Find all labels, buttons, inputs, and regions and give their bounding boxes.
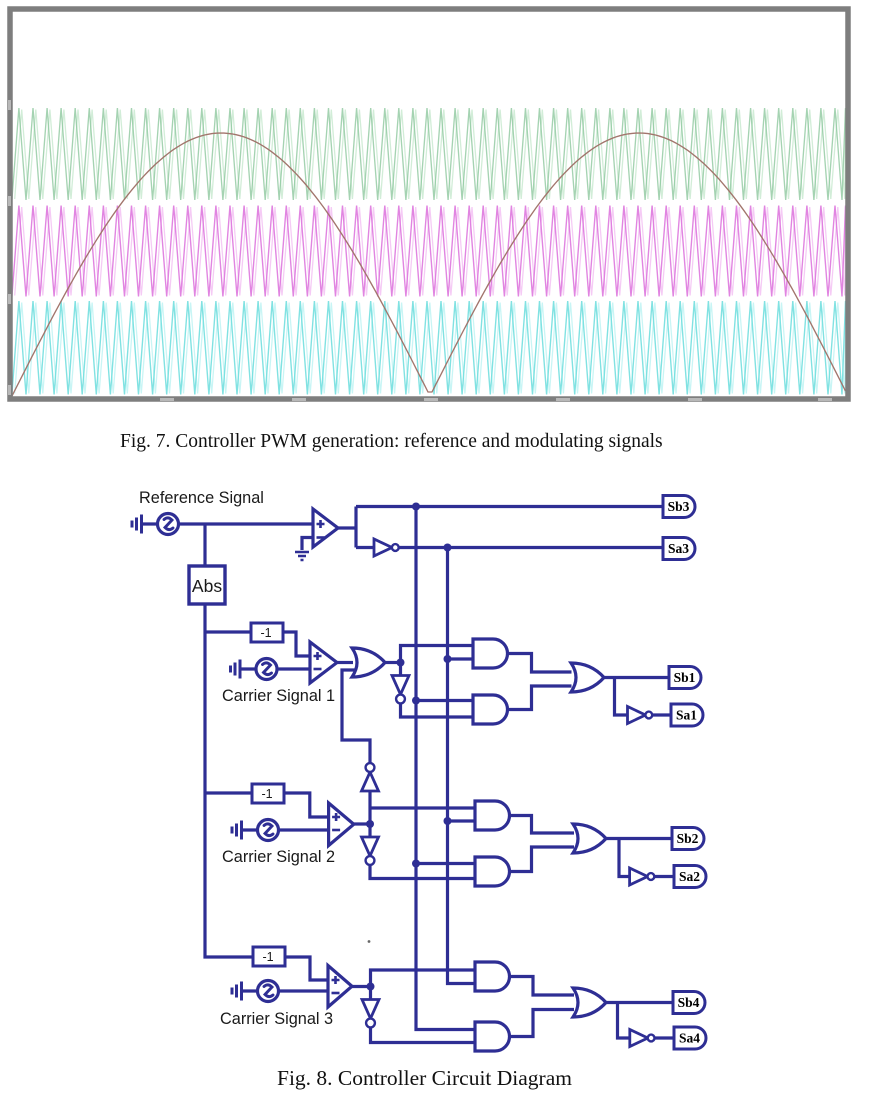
AND gate A1 bbox=[473, 639, 508, 668]
junction U3 output node bbox=[366, 820, 374, 828]
svg-text:Reference Signal: Reference Signal bbox=[139, 489, 264, 507]
junction bus2 row2 bbox=[444, 817, 452, 825]
NOT gate N8 bbox=[630, 1030, 655, 1047]
Abs block bbox=[189, 566, 225, 604]
AND gate A4 bbox=[475, 857, 510, 886]
NOT gate N7 bbox=[362, 1000, 379, 1028]
svg-text:Sa3: Sa3 bbox=[668, 541, 689, 556]
OR gate O2 bbox=[571, 663, 604, 692]
NOT gate N2 bbox=[392, 676, 409, 704]
wire vertical split of U1 output bbox=[354, 507, 357, 548]
junction bus2 top bbox=[444, 544, 452, 552]
wire U3 node down to NOT gate N5 bbox=[368, 824, 371, 837]
svg-text:Sb4: Sb4 bbox=[678, 995, 700, 1010]
junction node O1 output bbox=[397, 659, 405, 667]
svg-text:Carrier Signal 1: Carrier Signal 1 bbox=[222, 687, 335, 705]
wire N5 output to AND gate A4 input bbox=[370, 865, 475, 879]
cyan carrier waveform bbox=[12, 301, 846, 395]
wire U3 output bbox=[354, 822, 370, 825]
source V2 carrier 1 bbox=[231, 659, 278, 680]
wire branch to NOT gate N6 bbox=[619, 839, 630, 877]
plot frame bbox=[10, 9, 848, 399]
comparator U2 bbox=[310, 642, 337, 683]
wire tap to AND gate A3 input bbox=[370, 806, 475, 809]
gain block G2 value -1 bbox=[252, 784, 284, 803]
wire A6 output to OR gate O4 bbox=[510, 1010, 575, 1037]
wire G3 to comparator U4 + input bbox=[285, 957, 328, 980]
wire O1 output down to NOT gate N2 bbox=[399, 663, 402, 676]
wire U1 output bbox=[338, 526, 356, 529]
output port Sa2 bbox=[674, 866, 706, 888]
gain block G1 value -1 bbox=[251, 623, 283, 642]
svg-text:Sb2: Sb2 bbox=[677, 831, 699, 846]
svg-text:Sb3: Sb3 bbox=[668, 499, 690, 514]
wire carrier 2 to U3 - input bbox=[278, 828, 329, 831]
junction bus2 row1 bbox=[444, 655, 452, 663]
stray mark bbox=[368, 940, 371, 943]
wire G2 to comparator U3 + input bbox=[284, 793, 329, 817]
wire net Sa3 bbox=[399, 546, 663, 549]
wire U4 node down to NOT gate N7 bbox=[369, 987, 372, 1000]
output port Sb2 bbox=[672, 828, 704, 850]
svg-text:Fig. 7. Controller PWM generat: Fig. 7. Controller PWM generation: refer… bbox=[120, 431, 663, 452]
output port Sb1 bbox=[669, 667, 701, 689]
NOT gate N5 bbox=[362, 837, 379, 865]
comparator U4 bbox=[328, 966, 352, 1008]
svg-text:Sa4: Sa4 bbox=[679, 1031, 700, 1046]
svg-text:-1: -1 bbox=[261, 787, 272, 801]
wire net Sb3 bbox=[356, 505, 663, 508]
AND gate A2 bbox=[473, 695, 508, 724]
wire N4 input from comparator U3 output node bbox=[368, 791, 371, 824]
junction U4 output node bbox=[367, 983, 375, 991]
junction bus1 row2 bbox=[412, 860, 420, 868]
gain block G3 value -1 bbox=[253, 947, 285, 966]
wire A3 output to OR gate O3 bbox=[510, 816, 575, 834]
svg-text:-1: -1 bbox=[262, 950, 273, 964]
output port Sb3 bbox=[663, 496, 695, 518]
wire branch to NOT gate N8 bbox=[618, 1003, 630, 1039]
wire carrier 3 to U4 - input bbox=[278, 989, 328, 992]
magenta carrier waveform bbox=[12, 206, 846, 297]
wire branch to gain block G2 bbox=[205, 791, 252, 794]
AND gate A6 bbox=[475, 1022, 510, 1051]
bus wire 1 (Sb3 net vertical) bbox=[416, 507, 475, 1030]
junction bus1 row1 bbox=[412, 697, 420, 705]
green carrier waveform bbox=[12, 108, 846, 200]
output port Sa4 bbox=[674, 1027, 706, 1049]
wire bus1 tap to A4 input bbox=[416, 862, 475, 865]
AND gate A3 bbox=[475, 801, 510, 830]
output port Sa1 bbox=[671, 704, 703, 726]
junction bus1 top bbox=[412, 503, 420, 511]
NOT gate N1 bbox=[374, 539, 399, 556]
wire A1 output to OR gate O2 bbox=[508, 654, 572, 673]
NOT gate N4 (inverter between row1 and row2) bbox=[362, 763, 379, 791]
comparator U3 bbox=[329, 803, 354, 846]
wire bus2 tap to A3 input bbox=[448, 819, 476, 822]
wire U4 output bbox=[352, 985, 371, 988]
NOT gate N3 bbox=[628, 707, 653, 724]
wire N6 output net Sa2 bbox=[655, 875, 674, 878]
AND gate A5 bbox=[475, 962, 510, 991]
comparator U1 bbox=[313, 509, 338, 547]
wire N3 output net Sa1 bbox=[653, 713, 672, 716]
output port Sa3 bbox=[663, 538, 695, 560]
wire N8 output net Sa4 bbox=[655, 1036, 674, 1039]
wire G1 to comparator U2 + input bbox=[283, 632, 310, 656]
wire main vertical bus from Abs down to row of carrier 3 bbox=[205, 604, 253, 957]
wire O1 output up to AND gate A1 input bbox=[401, 646, 474, 663]
source V1 reference sine source bbox=[132, 514, 179, 535]
wire U2 output to OR gate O1 bbox=[337, 661, 353, 664]
wire bus2 tap to A1 input bbox=[448, 657, 474, 660]
svg-text:Abs: Abs bbox=[192, 576, 222, 596]
svg-text:Carrier Signal 2: Carrier Signal 2 bbox=[222, 848, 335, 866]
bus wire 2 (Sa3 net vertical) bbox=[448, 548, 476, 984]
wire U4 node up to AND gate A5 input bbox=[371, 970, 476, 987]
svg-text:-1: -1 bbox=[260, 626, 271, 640]
wire branch to NOT gate N3 bbox=[615, 678, 628, 716]
OR gate O3 bbox=[573, 824, 606, 853]
source V4 carrier 3 bbox=[232, 981, 279, 1002]
svg-text:Carrier Signal 3: Carrier Signal 3 bbox=[220, 1010, 333, 1028]
svg-text:Fig. 8. Controller Circuit Dia: Fig. 8. Controller Circuit Diagram bbox=[277, 1066, 572, 1090]
OR gate O4 bbox=[573, 988, 606, 1017]
svg-text:Sa2: Sa2 bbox=[679, 869, 700, 884]
ground symbol at U1 - input bbox=[295, 538, 313, 561]
svg-text:Sb1: Sb1 bbox=[674, 670, 696, 685]
wire A4 output to OR gate O3 bbox=[510, 847, 575, 872]
wire A2 output to OR gate O2 bbox=[508, 686, 572, 710]
svg-text:Sa1: Sa1 bbox=[676, 708, 697, 723]
wire U1 output to inverter N1 bbox=[356, 546, 374, 549]
wire O1 second input from inverter N4 below bbox=[342, 670, 370, 763]
wire N2 output to AND gate A2 input bbox=[401, 704, 474, 718]
reference sine waveform bbox=[12, 133, 846, 396]
wire branch to gain block G1 bbox=[205, 630, 251, 633]
source V3 carrier 2 bbox=[232, 820, 279, 841]
output port Sb4 bbox=[673, 992, 705, 1014]
wire A5 output to OR gate O4 bbox=[510, 977, 575, 996]
wire O4 output net Sb4 bbox=[606, 1001, 673, 1004]
wire O3 output net Sb2 bbox=[606, 837, 672, 840]
wire reference source to comparator U1 + input bbox=[178, 522, 313, 525]
wire bus1 tap to A2 input bbox=[416, 699, 473, 702]
wire O1 output bbox=[385, 661, 401, 664]
wire O2 output net Sb1 bbox=[604, 676, 669, 679]
axis tick marks bbox=[8, 100, 832, 401]
NOT gate N6 bbox=[630, 868, 655, 885]
wire N7 output to AND gate A6 input bbox=[371, 1028, 476, 1043]
OR gate O1 bbox=[352, 648, 385, 677]
wire carrier 1 to U2 - input bbox=[277, 667, 311, 670]
wire branch down to Abs block bbox=[203, 524, 206, 566]
